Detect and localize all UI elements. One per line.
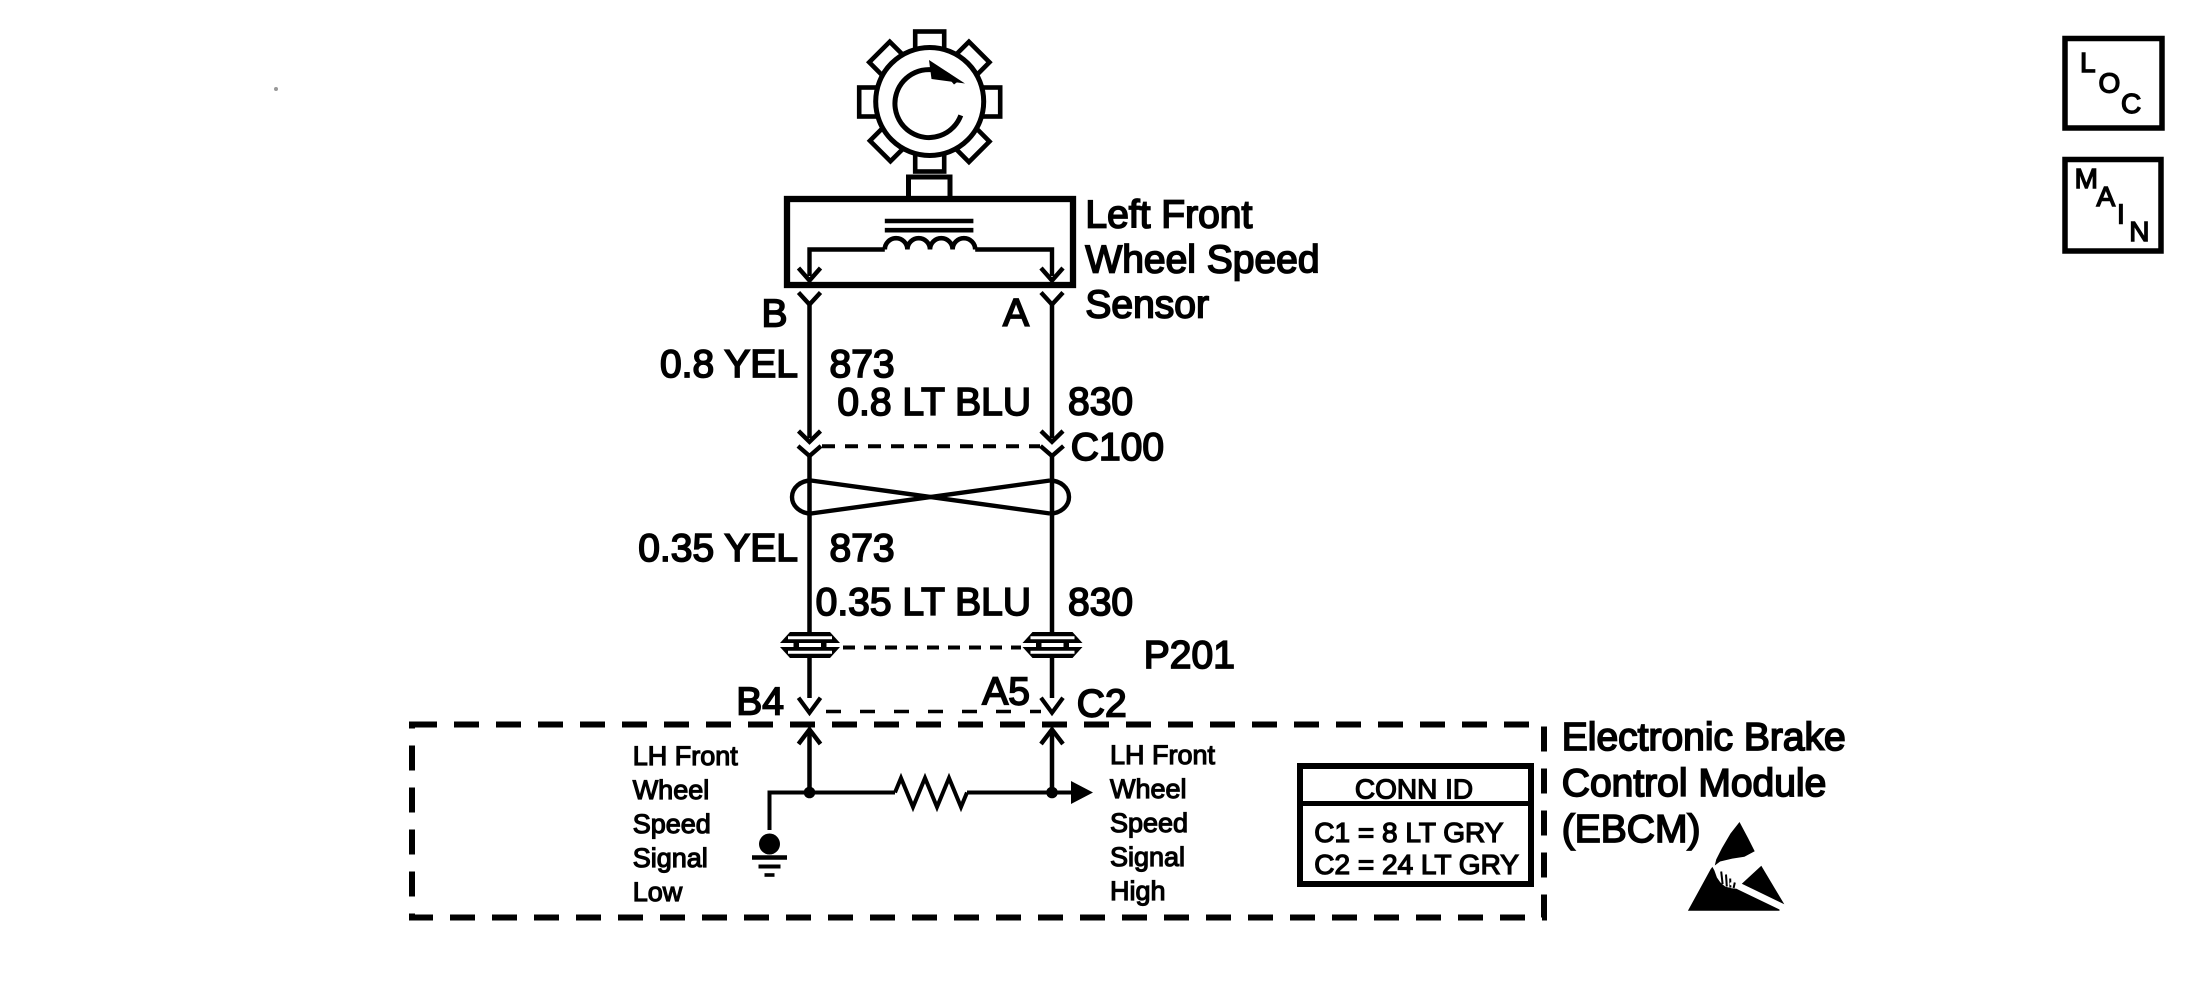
EBCM entry arrow left bbox=[799, 730, 821, 745]
ESD symbol bbox=[1688, 822, 1784, 911]
sensor core lines bbox=[885, 219, 974, 224]
MAIN box bbox=[2065, 160, 2161, 252]
wire A upper segment bbox=[1050, 305, 1055, 439]
EBCM pin C2/A5 female terminal bbox=[1041, 698, 1063, 713]
svg-text:0.8 LT BLU: 0.8 LT BLU bbox=[837, 381, 1031, 424]
svg-text:C100: C100 bbox=[1071, 426, 1164, 469]
svg-text:B4: B4 bbox=[736, 681, 784, 724]
svg-text:Sensor: Sensor bbox=[1085, 284, 1209, 327]
signal arrow head bbox=[1071, 781, 1093, 804]
wire A mid segment bbox=[1050, 456, 1055, 632]
svg-text:873: 873 bbox=[830, 527, 895, 570]
svg-text:LH Front: LH Front bbox=[633, 741, 739, 771]
label Left Front Wheel Speed Sensor bbox=[1085, 194, 1319, 327]
svg-text:Low: Low bbox=[633, 877, 683, 907]
svg-text:830: 830 bbox=[1068, 581, 1133, 624]
wire to arrow bbox=[967, 791, 1071, 795]
gear teeth bbox=[830, 2, 1029, 201]
svg-text:CONN ID: CONN ID bbox=[1355, 774, 1473, 805]
LOC box bbox=[2065, 39, 2162, 129]
svg-text:A5: A5 bbox=[982, 671, 1030, 714]
wire B upper segment bbox=[807, 305, 812, 439]
tone wheel (gear) bbox=[876, 48, 984, 156]
svg-text:830: 830 bbox=[1068, 381, 1133, 424]
svg-text:Electronic Brake: Electronic Brake bbox=[1562, 716, 1846, 759]
internal bus wire bbox=[770, 793, 896, 831]
label Electronic Brake Control Module (EBCM) bbox=[1562, 716, 1846, 851]
P201 grommet right bbox=[1023, 632, 1083, 658]
svg-text:0.35 YEL: 0.35 YEL bbox=[638, 527, 798, 570]
wire A lower segment bbox=[1050, 658, 1055, 698]
svg-text:Wheel: Wheel bbox=[1110, 774, 1187, 804]
label LH Front Wheel Speed Signal High bbox=[1110, 740, 1216, 906]
svg-text:Speed: Speed bbox=[1110, 808, 1188, 838]
sensor stub bbox=[909, 177, 951, 199]
connector thin dashed line bbox=[826, 710, 1041, 714]
internal arrow left bbox=[799, 268, 821, 281]
sensor coil bbox=[885, 238, 975, 249]
wire B mid segment bbox=[807, 456, 812, 632]
wire B lower segment bbox=[807, 658, 812, 698]
svg-text:Speed: Speed bbox=[633, 809, 711, 839]
svg-text:Control Module: Control Module bbox=[1562, 762, 1826, 805]
pin A terminal bbox=[1041, 293, 1063, 305]
resistor R bbox=[895, 778, 967, 807]
svg-text:Signal: Signal bbox=[633, 843, 708, 873]
svg-text:873: 873 bbox=[830, 343, 895, 386]
svg-text:O: O bbox=[2099, 68, 2121, 99]
svg-text:(EBCM): (EBCM) bbox=[1562, 808, 1701, 851]
CONN ID table bbox=[1300, 766, 1531, 884]
svg-text:0.8 YEL: 0.8 YEL bbox=[660, 343, 798, 386]
EBCM module dashed box bbox=[412, 725, 1544, 918]
C100 dashed connector line bbox=[822, 444, 1040, 448]
svg-text:B: B bbox=[761, 293, 787, 336]
twisted pair symbol bbox=[792, 481, 1069, 514]
stray speck bbox=[274, 87, 278, 91]
svg-text:C1 = 8 LT GRY: C1 = 8 LT GRY bbox=[1314, 817, 1503, 848]
junction dot right bbox=[1046, 787, 1058, 799]
label LH Front Wheel Speed Signal Low bbox=[633, 741, 739, 907]
ground symbol bbox=[752, 834, 787, 876]
svg-text:Signal: Signal bbox=[1110, 842, 1185, 872]
rotation arrow inside gear bbox=[895, 70, 961, 138]
P201 grommet left bbox=[780, 632, 840, 658]
svg-text:C: C bbox=[2121, 88, 2141, 119]
svg-text:P201: P201 bbox=[1144, 634, 1235, 677]
left front wheel speed sensor box bbox=[787, 199, 1073, 285]
P201 dashed line bbox=[843, 646, 1021, 650]
svg-text:High: High bbox=[1110, 876, 1166, 906]
svg-text:A: A bbox=[1003, 292, 1029, 335]
svg-text:A: A bbox=[2097, 181, 2116, 212]
svg-text:LH Front: LH Front bbox=[1110, 740, 1216, 770]
svg-text:Left Front: Left Front bbox=[1085, 194, 1252, 237]
svg-text:N: N bbox=[2129, 216, 2149, 247]
svg-text:Wheel: Wheel bbox=[633, 775, 710, 805]
C100 male arrow right bbox=[1041, 431, 1063, 442]
svg-text:0.35 LT BLU: 0.35 LT BLU bbox=[816, 581, 1031, 624]
svg-text:M: M bbox=[2075, 163, 2098, 194]
EBCM pin B4 female terminal bbox=[799, 698, 821, 713]
C100 female terminal left bbox=[798, 446, 821, 456]
junction dot left bbox=[804, 787, 816, 799]
pin B terminal bbox=[799, 293, 821, 305]
svg-text:C2: C2 bbox=[1077, 683, 1127, 726]
svg-text:I: I bbox=[2117, 199, 2125, 230]
C100 female terminal right bbox=[1041, 446, 1064, 456]
sensor internal wiring bbox=[810, 250, 885, 277]
svg-text:L: L bbox=[2080, 47, 2096, 78]
EBCM entry arrow right bbox=[1041, 730, 1063, 745]
internal arrow right bbox=[1041, 268, 1063, 281]
C100 male arrow left bbox=[799, 431, 821, 442]
svg-text:Wheel Speed: Wheel Speed bbox=[1085, 239, 1319, 282]
svg-text:C2 = 24 LT GRY: C2 = 24 LT GRY bbox=[1314, 849, 1519, 880]
